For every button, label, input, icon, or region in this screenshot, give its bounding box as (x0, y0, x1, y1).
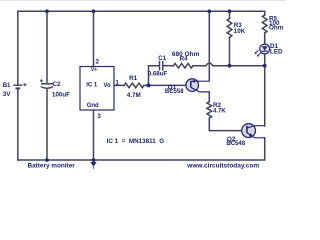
svg-text:R1: R1 (129, 75, 138, 82)
svg-text:4.7K: 4.7K (213, 109, 226, 115)
svg-text:V+: V+ (91, 67, 98, 73)
svg-text:Battery moniter: Battery moniter (28, 162, 76, 169)
svg-text:4.7M: 4.7M (127, 92, 141, 99)
svg-text:100uF: 100uF (52, 91, 70, 98)
svg-text:10K: 10K (234, 28, 246, 35)
svg-text:www.circuitstoday.com: www.circuitstoday.com (186, 163, 259, 170)
svg-text:Ohm: Ohm (269, 25, 284, 32)
svg-text:Vo: Vo (104, 83, 112, 89)
svg-text:BC558: BC558 (165, 89, 184, 95)
svg-text:0.68uF: 0.68uF (148, 70, 168, 77)
svg-text:LED: LED (270, 48, 283, 55)
svg-text:C2: C2 (53, 81, 62, 88)
svg-text:3V: 3V (3, 91, 12, 98)
svg-text:Gnd: Gnd (87, 103, 99, 109)
svg-text:B1: B1 (3, 83, 11, 89)
svg-text:1: 1 (115, 80, 119, 87)
svg-text:IC 1 = MN13811 G: IC 1 = MN13811 G (107, 138, 165, 145)
svg-text:R4: R4 (180, 57, 188, 63)
svg-text:2: 2 (96, 59, 100, 66)
svg-text:IC 1: IC 1 (86, 82, 98, 88)
svg-text:3: 3 (97, 113, 101, 120)
svg-text:C1: C1 (158, 55, 167, 62)
svg-text:BC548: BC548 (226, 141, 245, 147)
